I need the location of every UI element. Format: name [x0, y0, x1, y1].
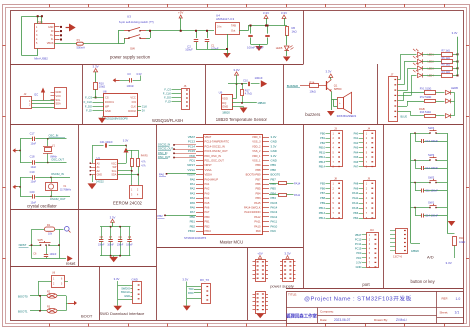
svg-text:PB14: PB14 [319, 165, 326, 169]
svg-text:PA9: PA9 [354, 186, 359, 190]
svg-text:PC13-TAMPER-RTC: PC13-TAMPER-RTC [205, 140, 230, 144]
svg-text:10kΩ: 10kΩ [310, 89, 316, 93]
svg-text:PC14: PC14 [355, 242, 362, 246]
svg-text:100nF: 100nF [211, 47, 219, 51]
svg-text:PB2: PB2 [320, 141, 325, 145]
svg-text:PA5: PA5 [190, 201, 196, 205]
svg-text:PD0_OSC_IN: PD0_OSC_IN [205, 154, 222, 158]
svg-text:2548: 2548 [37, 21, 43, 24]
svg-text:PD1: PD1 [189, 159, 195, 163]
svg-text:PB9: PB9 [271, 163, 277, 167]
svg-text:C7: C7 [109, 235, 113, 239]
svg-text:R1: R1 [47, 223, 51, 227]
svg-text:C13 100uF: C13 100uF [425, 139, 438, 143]
svg-text:1kΩ: 1kΩ [292, 30, 297, 34]
svg-text:1.0: 1.0 [456, 297, 461, 301]
svg-text:100uF: 100uF [185, 48, 193, 52]
svg-text:VDDA: VDDA [205, 173, 213, 177]
svg-text:C6: C6 [128, 235, 132, 239]
svg-text:100nF: 100nF [107, 245, 114, 247]
svg-text:PB10: PB10 [319, 146, 326, 150]
svg-text:BOOT: BOOT [81, 314, 93, 319]
svg-text:buzzers: buzzers [305, 112, 320, 117]
svg-text:GND: GND [271, 140, 277, 144]
svg-text:3.3V: 3.3V [123, 139, 129, 143]
svg-text:PB8: PB8 [320, 196, 325, 200]
svg-text:C20: C20 [30, 190, 35, 194]
svg-text:PB7: PB7 [271, 177, 277, 181]
svg-text:NRST: NRST [187, 163, 195, 167]
svg-text:PA10: PA10 [271, 224, 278, 228]
svg-text:PA5: PA5 [354, 155, 359, 159]
svg-text:IO3: IO3 [132, 100, 137, 104]
svg-text:EEROM 24C02: EEROM 24C02 [113, 201, 143, 206]
svg-text:PA0: PA0 [354, 131, 359, 135]
svg-text:GND: GND [48, 26, 54, 29]
svg-text:PB11: PB11 [319, 150, 326, 154]
svg-text:OSC32_OUT: OSC32_OUT [158, 147, 174, 151]
svg-text:J10: J10 [370, 228, 375, 232]
svg-text:PB7: PB7 [320, 191, 325, 195]
svg-text:C11 100nF: C11 100nF [425, 189, 438, 193]
svg-text:2023-06-07: 2023-06-07 [334, 318, 351, 322]
svg-text:PA0: PA0 [190, 177, 196, 181]
svg-text:3 In: 3 In [217, 25, 222, 29]
svg-text:RY2 510Ω: RY2 510Ω [420, 96, 432, 99]
svg-text:W25Q16/FLASH: W25Q16/FLASH [152, 118, 183, 123]
svg-text:PB5: PB5 [320, 181, 325, 185]
svg-text:SDA: SDA [111, 174, 116, 177]
svg-text:SWDIO: SWDIO [121, 286, 130, 290]
svg-text:PA3: PA3 [354, 146, 359, 150]
svg-text:PB8: PB8 [271, 168, 277, 172]
svg-text:Drawn By:: Drawn By: [374, 318, 388, 322]
svg-text:C19: C19 [30, 170, 35, 174]
svg-text:D-: D- [51, 38, 54, 41]
svg-text:PA1: PA1 [190, 182, 196, 186]
svg-text:10kΩ: 10kΩ [459, 240, 465, 244]
svg-text:RXD: RXD [188, 291, 194, 295]
svg-text:PA4: PA4 [205, 196, 210, 200]
svg-text:3.3V: 3.3V [263, 11, 269, 15]
svg-text:PA14-SWCLK: PA14-SWCLK [244, 206, 261, 210]
svg-text:LED5: LED5 [276, 46, 283, 50]
svg-text:PC15: PC15 [355, 247, 362, 251]
svg-text:+5V: +5V [257, 252, 263, 256]
svg-text:PB5: PB5 [271, 187, 277, 191]
svg-text:WP: WP [105, 105, 109, 109]
svg-text:PA0: PA0 [159, 173, 164, 177]
svg-text:PA4: PA4 [190, 196, 196, 200]
svg-text:3.3V: 3.3V [446, 261, 453, 265]
svg-text:reset: reset [66, 261, 76, 266]
svg-text:TAB: TAB [231, 24, 236, 28]
svg-text:WP: WP [112, 166, 116, 169]
svg-text:PB1: PB1 [205, 220, 211, 224]
svg-text:CLK: CLK [131, 105, 136, 109]
svg-text:C3: C3 [127, 72, 131, 76]
svg-text:R5 1kΩ: R5 1kΩ [442, 64, 451, 67]
svg-text:+5V: +5V [178, 11, 183, 15]
svg-text:R13 510Ω: R13 510Ω [420, 111, 431, 114]
svg-text:BOOT0-PB9: BOOT0-PB9 [246, 173, 261, 177]
svg-text:BOOT0: BOOT0 [271, 173, 281, 177]
svg-text:F_CLK: F_CLK [163, 92, 171, 96]
svg-text:SCL: SCL [56, 98, 62, 102]
svg-text:power supply: power supply [270, 283, 294, 288]
svg-text:PB12: PB12 [319, 206, 326, 210]
svg-text:PC14-OSC32_IN: PC14-OSC32_IN [205, 144, 225, 148]
svg-text:PA14: PA14 [294, 181, 301, 185]
svg-text:S8550: S8550 [334, 87, 342, 91]
svg-text:PA12: PA12 [254, 215, 261, 219]
svg-text:W25Q16BV/SSOP8: W25Q16BV/SSOP8 [105, 117, 129, 121]
svg-text:GND: GND [271, 159, 277, 163]
svg-text:BLUE: BLUE [401, 116, 408, 119]
svg-text:3.3V: 3.3V [356, 260, 362, 264]
svg-text:GND: GND [97, 174, 103, 177]
svg-text:PA11: PA11 [271, 220, 278, 224]
svg-text:PA7: PA7 [205, 210, 210, 214]
svg-text:PA10: PA10 [352, 191, 359, 195]
svg-text:3.3V: 3.3V [281, 11, 287, 15]
svg-text:Q1: Q1 [334, 84, 338, 88]
svg-text:PB3: PB3 [271, 196, 277, 200]
svg-text:@Project Name : STM32F103开发板: @Project Name : STM32F103开发板 [304, 295, 412, 303]
svg-text:VCC: VCC [56, 94, 62, 98]
svg-text:R4 1kΩ: R4 1kΩ [442, 71, 451, 74]
svg-text:BOOT1: BOOT1 [18, 309, 28, 313]
svg-text:DI/IO2: DI/IO2 [128, 109, 136, 113]
svg-text:SWD Download Interface: SWD Download Interface [100, 311, 146, 316]
svg-text:PD1_OSC_OUT: PD1_OSC_OUT [205, 159, 225, 163]
svg-text:PB5: PB5 [256, 187, 262, 191]
svg-text:OSC_OUT: OSC_OUT [51, 157, 64, 161]
svg-text:GND: GND [132, 278, 138, 282]
svg-text:18B20: 18B20 [257, 101, 266, 105]
svg-text:100nF: 100nF [98, 245, 105, 247]
svg-text:PA11: PA11 [352, 196, 358, 200]
svg-text:100nF: 100nF [126, 245, 133, 247]
svg-text:C9: C9 [118, 235, 122, 239]
svg-text:Company:: Company: [320, 310, 334, 314]
svg-text:R7 1kΩ: R7 1kΩ [442, 50, 451, 53]
svg-text:PA8: PA8 [354, 181, 359, 185]
svg-text:button or key: button or key [411, 279, 436, 284]
svg-text:Master MCU: Master MCU [220, 240, 244, 245]
svg-text:6-pin self-locking switch (??): 6-pin self-locking switch (??) [119, 20, 154, 24]
svg-text:3.3V: 3.3V [136, 72, 142, 76]
svg-text:RX_TX: RX_TX [200, 278, 209, 282]
svg-text:3.3V: 3.3V [233, 68, 239, 72]
svg-text:DI: DI [142, 109, 145, 113]
svg-text:C17: C17 [30, 131, 35, 135]
svg-text:AMS1117-3.3: AMS1117-3.3 [216, 17, 234, 21]
svg-text:VDD_2: VDD_2 [252, 144, 261, 148]
svg-text:SWCLK: SWCLK [121, 290, 130, 294]
svg-text:VSS_1: VSS_1 [252, 159, 261, 163]
svg-text:PB8: PB8 [256, 168, 262, 172]
svg-text:PB3: PB3 [353, 211, 358, 215]
svg-text:3.3V: 3.3V [284, 252, 291, 256]
svg-text:PA9: PA9 [256, 229, 261, 233]
svg-text:CLK: CLK [142, 104, 147, 108]
svg-text:VBAT: VBAT [205, 135, 212, 139]
svg-text:18B20: 18B20 [411, 249, 419, 253]
svg-text:NRST: NRST [19, 243, 27, 247]
svg-text:1/1: 1/1 [455, 311, 460, 315]
svg-text:100nF: 100nF [127, 84, 135, 88]
svg-text:3.3V: 3.3V [452, 31, 458, 35]
svg-text:3.3V: 3.3V [271, 135, 277, 139]
svg-text:OSC32_IN: OSC32_IN [51, 172, 64, 176]
svg-text:PD1: PD1 [356, 256, 362, 260]
svg-text:Sheet:: Sheet: [440, 311, 449, 315]
svg-text:OSC32_IN: OSC32_IN [158, 143, 170, 147]
svg-text:PA1: PA1 [205, 182, 210, 186]
svg-text:PB2: PB2 [205, 224, 211, 228]
svg-text:100nF: 100nF [50, 253, 57, 256]
svg-text:PA13: PA13 [271, 210, 278, 214]
svg-text:3W8 BUZZER2: 3W8 BUZZER2 [337, 114, 357, 118]
svg-text:SCL: SCL [112, 170, 117, 173]
svg-text:GND: GND [56, 90, 62, 94]
svg-text:GND: GND [105, 109, 111, 113]
svg-text:PA3: PA3 [190, 191, 196, 195]
svg-text:4.7kΩ: 4.7kΩ [245, 92, 252, 96]
svg-text:OSC_IN: OSC_IN [158, 151, 168, 155]
svg-text:13C?-6: 13C?-6 [393, 255, 402, 259]
svg-text:I2C: I2C [34, 93, 38, 97]
svg-text:TITLE:: TITLE: [288, 293, 297, 297]
svg-text:PA4: PA4 [354, 150, 359, 154]
svg-text:PB6: PB6 [256, 182, 262, 186]
svg-text:VSSA: VSSA [187, 168, 195, 172]
svg-text:SDA: SDA [56, 102, 62, 106]
svg-text:PA10: PA10 [254, 224, 261, 228]
svg-text:500mA: 500mA [77, 46, 86, 50]
svg-text:PA15: PA15 [352, 206, 359, 210]
svg-text:PB9: PB9 [320, 201, 325, 205]
svg-text:PB6: PB6 [271, 182, 277, 186]
svg-text:PA2: PA2 [205, 187, 210, 191]
svg-text:PB6: PB6 [320, 186, 325, 190]
svg-text:NRST: NRST [205, 163, 213, 167]
svg-text:PA15: PA15 [271, 201, 278, 205]
svg-text:PB7: PB7 [256, 177, 262, 181]
svg-text:PA2: PA2 [354, 141, 359, 145]
svg-text:F_CLK: F_CLK [84, 100, 93, 104]
svg-text:VSSA: VSSA [205, 168, 212, 172]
svg-text:DO/IO1: DO/IO1 [105, 100, 114, 104]
svg-text:VBAT: VBAT [188, 135, 195, 139]
svg-text:3.3V: 3.3V [114, 277, 120, 281]
svg-text:3.3V: 3.3V [110, 215, 116, 219]
svg-text:BOOT0: BOOT0 [18, 294, 28, 298]
svg-text:18B20 Temperature Sensor: 18B20 Temperature Sensor [216, 117, 268, 122]
svg-text:PB2: PB2 [158, 214, 164, 218]
svg-text:100nF: 100nF [255, 76, 263, 80]
svg-text:VBAT: VBAT [355, 233, 362, 237]
svg-text:Zi MoLi: Zi MoLi [396, 318, 407, 322]
svg-text:GND: GND [124, 294, 130, 298]
svg-text:PB1: PB1 [320, 136, 325, 140]
svg-text:PA2: PA2 [190, 187, 196, 191]
svg-text:PB2: PB2 [190, 224, 196, 228]
svg-text:PB10: PB10 [188, 229, 195, 233]
svg-text:PA6: PA6 [354, 160, 359, 164]
svg-text:F_CS: F_CS [85, 96, 92, 100]
svg-text:REF:: REF: [442, 297, 449, 301]
svg-text:C18: C18 [30, 154, 35, 158]
svg-text:18B20: 18B20 [222, 111, 230, 115]
svg-text:PA6: PA6 [190, 206, 196, 210]
svg-text:PB13: PB13 [319, 160, 326, 164]
svg-text:PA11: PA11 [254, 220, 261, 224]
svg-text:PA1: PA1 [354, 136, 359, 140]
svg-text:OSC32_OUT: OSC32_OUT [50, 197, 66, 201]
svg-text:PB9: PB9 [256, 163, 262, 167]
svg-text:PA9: PA9 [271, 229, 277, 233]
svg-text:VCC: VCC [111, 162, 116, 165]
svg-text:PB3: PB3 [256, 196, 262, 200]
svg-text:U9: U9 [219, 90, 223, 94]
svg-text:PA14: PA14 [271, 206, 278, 210]
svg-text:VDD_1: VDD_1 [252, 154, 261, 158]
svg-text:PB4: PB4 [256, 191, 262, 195]
svg-text:狐狸回森工作室: 狐狸回森工作室 [286, 313, 317, 320]
svg-text:TXD: TXD [188, 287, 193, 291]
svg-text:SW5: SW5 [38, 239, 44, 242]
svg-text:PB14: PB14 [319, 216, 326, 220]
svg-text:3.3V: 3.3V [271, 144, 277, 148]
svg-text:C8: C8 [100, 235, 104, 239]
svg-text:PB13: PB13 [319, 211, 326, 215]
svg-text:PB1: PB1 [190, 220, 196, 224]
svg-text:3.3V: 3.3V [271, 154, 277, 158]
svg-text:GND: GND [356, 265, 362, 269]
svg-text:LED2: LED2 [428, 61, 435, 64]
svg-text:C10: C10 [243, 79, 248, 83]
svg-text:32.768kHz: 32.768kHz [60, 190, 72, 192]
svg-text:PB0: PB0 [320, 131, 325, 135]
svg-text:P1: P1 [77, 38, 81, 42]
svg-text:PA7: PA7 [190, 210, 196, 214]
svg-text:PA11: PA11 [294, 193, 301, 197]
svg-text:R6 1kΩ: R6 1kΩ [442, 57, 451, 60]
svg-text:ID: ID [51, 30, 54, 33]
svg-text:F_DO: F_DO [85, 105, 92, 109]
svg-text:VSS_2: VSS_2 [252, 149, 261, 153]
svg-text:PD0: PD0 [356, 251, 362, 255]
svg-text:PA5: PA5 [205, 201, 210, 205]
svg-text:F_DI: F_DI [86, 109, 92, 113]
svg-text:R18: R18 [459, 236, 464, 240]
svg-text:100nF 100uF: 100nF 100uF [247, 46, 264, 50]
svg-text:C12 100nF: C12 100nF [425, 166, 438, 170]
svg-text:10kΩ: 10kΩ [99, 85, 105, 89]
svg-text:F_DO: F_DO [164, 96, 171, 100]
svg-text:port: port [362, 282, 370, 287]
svg-text:3.3V: 3.3V [326, 70, 332, 74]
svg-text:DQ: DQ [222, 101, 226, 105]
svg-text:Date:: Date: [320, 318, 327, 322]
svg-text:PA12: PA12 [271, 215, 278, 219]
svg-text:LED4: LED4 [428, 74, 435, 77]
svg-text:VCC: VCC [130, 96, 136, 100]
svg-text:PC13: PC13 [188, 140, 196, 144]
svg-text:C14 100nF: C14 100nF [425, 214, 438, 218]
svg-text:PC15-OSC32_OUT: PC15-OSC32_OUT [205, 149, 229, 153]
svg-text:3.3V: 3.3V [93, 65, 99, 69]
svg-text:VBUS: VBUS [47, 42, 54, 45]
svg-text:PA6: PA6 [205, 206, 210, 210]
svg-text:LEDB: LEDB [451, 86, 458, 90]
svg-text:PB4: PB4 [353, 216, 358, 220]
svg-text:PA15: PA15 [254, 201, 261, 205]
svg-text:VSS_3: VSS_3 [252, 140, 261, 144]
svg-text:GND: GND [271, 149, 277, 153]
svg-text:24C02: 24C02 [96, 180, 104, 184]
svg-text:Out: Out [231, 29, 236, 33]
svg-text:OSC_IN: OSC_IN [49, 134, 59, 138]
svg-text:PB10: PB10 [205, 229, 212, 233]
svg-text:VDD_3: VDD_3 [252, 135, 261, 139]
svg-text:10uF: 10uF [31, 142, 37, 145]
svg-text:10uF: 10uF [31, 166, 37, 169]
svg-text:PB0: PB0 [205, 215, 211, 219]
svg-text:RY1 510Ω: RY1 510Ω [420, 88, 432, 91]
svg-text:F_DI: F_DI [165, 100, 171, 104]
svg-text:RGB: RGB [419, 107, 425, 111]
svg-text:PB12: PB12 [319, 155, 326, 159]
svg-text:PC14: PC14 [188, 144, 196, 148]
svg-text:PA7: PA7 [354, 165, 359, 169]
svg-text:10uF: 10uF [31, 181, 37, 184]
svg-text:SW: SW [130, 47, 135, 51]
svg-text:PA12: PA12 [352, 201, 359, 205]
svg-text:PC13: PC13 [355, 237, 362, 241]
svg-text:Mini-USB2: Mini-USB2 [34, 56, 48, 60]
svg-text:PA0-WKUP: PA0-WKUP [205, 177, 219, 181]
svg-text:PA13-SWDIO: PA13-SWDIO [244, 210, 260, 214]
svg-text:U3: U3 [127, 15, 131, 19]
svg-text:100nF: 100nF [117, 245, 124, 247]
svg-text:F_CS: F_CS [164, 88, 171, 92]
svg-text:A/D: A/D [427, 255, 434, 260]
svg-text:PA3: PA3 [205, 191, 210, 195]
svg-text:U8: U8 [103, 90, 107, 94]
svg-text:R4 R5: R4 R5 [141, 155, 149, 158]
svg-text:power supply section: power supply section [110, 54, 151, 59]
svg-text:VDD: VDD [222, 96, 228, 100]
svg-text:STM32F103C8T6: STM32F103C8T6 [184, 236, 207, 240]
svg-text:3.3V: 3.3V [182, 277, 188, 281]
svg-text:crystal oscillator: crystal oscillator [27, 204, 57, 209]
svg-text:GND: GND [222, 105, 228, 109]
svg-text:CS: CS [105, 96, 109, 100]
